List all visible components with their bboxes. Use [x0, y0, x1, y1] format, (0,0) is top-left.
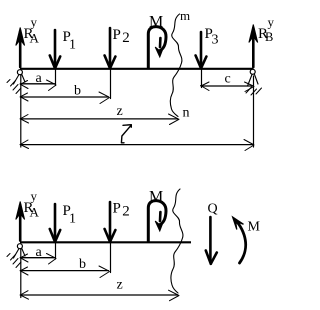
svg-text:Q: Q	[208, 202, 218, 217]
svg-text:2: 2	[122, 203, 130, 219]
svg-text:M: M	[149, 14, 163, 31]
svg-text:2: 2	[122, 30, 130, 46]
svg-text:y: y	[31, 15, 38, 30]
svg-text:b: b	[79, 257, 86, 272]
svg-text:P: P	[113, 201, 121, 217]
svg-text:P: P	[113, 27, 121, 43]
svg-text:z: z	[117, 104, 123, 119]
svg-text:m: m	[180, 8, 190, 23]
svg-text:b: b	[74, 84, 81, 99]
svg-text:y: y	[268, 15, 275, 30]
svg-text:A: A	[30, 205, 40, 220]
svg-text:M: M	[149, 189, 163, 206]
svg-text:y: y	[31, 189, 38, 204]
svg-text:c: c	[225, 72, 231, 87]
svg-text:a: a	[36, 71, 43, 86]
svg-text:1: 1	[69, 37, 76, 52]
svg-text:1: 1	[69, 211, 76, 226]
svg-text:z: z	[117, 278, 123, 293]
svg-text:3: 3	[212, 32, 219, 47]
svg-text:a: a	[36, 245, 43, 260]
svg-text:A: A	[30, 31, 40, 46]
svg-text:n: n	[183, 106, 190, 121]
svg-text:M: M	[248, 220, 261, 235]
svg-text:B: B	[265, 30, 273, 44]
